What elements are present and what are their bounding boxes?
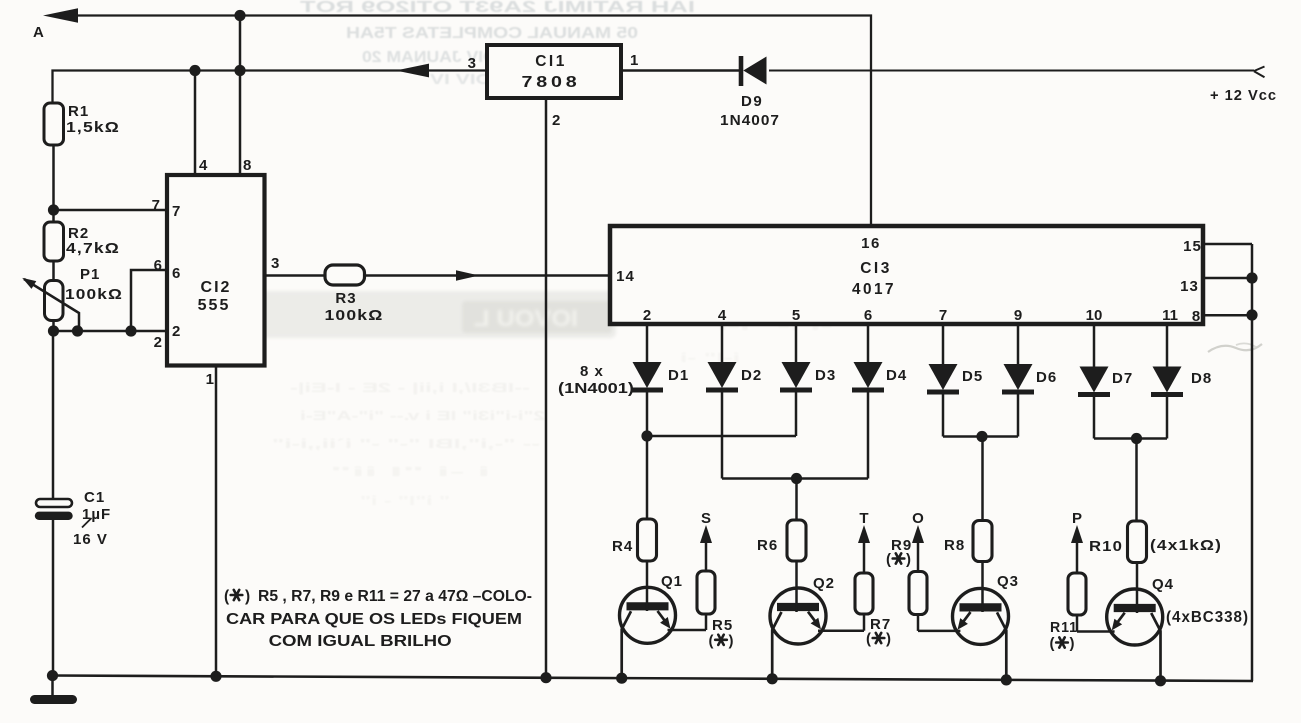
svg-text:): ) — [906, 551, 911, 568]
svg-text:R1: R1 — [68, 103, 89, 120]
svg-text:-- "-,i",IBI "-" -" i`ii,,: -- "-,i",IBI "-" -" i`ii,,i-i" — [272, 436, 540, 451]
svg-text:2: 2 — [154, 334, 162, 351]
svg-text:2: 2 — [172, 323, 180, 340]
svg-text:D4: D4 — [886, 367, 907, 384]
svg-text:Q4: Q4 — [1152, 576, 1174, 593]
svg-text:Q1: Q1 — [661, 573, 683, 590]
svg-text:4017: 4017 — [852, 281, 896, 298]
svg-text:(: ( — [866, 631, 871, 648]
svg-text:(: ( — [886, 551, 891, 568]
svg-text:(: ( — [224, 588, 230, 605]
svg-text:100kΩ: 100kΩ — [325, 307, 384, 324]
svg-text:): ) — [245, 588, 250, 605]
svg-text:9: 9 — [1014, 307, 1022, 324]
svg-text:7: 7 — [152, 197, 160, 214]
svg-text:7: 7 — [172, 203, 180, 220]
svg-text:6: 6 — [154, 257, 162, 274]
svg-text:05 MANUAL COMPLETAS T5AH: 05 MANUAL COMPLETAS T5AH — [346, 25, 638, 42]
svg-text:16 V: 16 V — [73, 531, 108, 548]
svg-text:): ) — [886, 631, 891, 648]
svg-text:(: ( — [1050, 635, 1055, 652]
svg-text:11: 11 — [1162, 307, 1178, 324]
svg-text:8: 8 — [1192, 308, 1200, 325]
svg-text:CI1: CI1 — [535, 53, 567, 70]
svg-text:(4x1kΩ): (4x1kΩ) — [1150, 537, 1222, 554]
svg-text:5: 5 — [792, 307, 800, 324]
svg-text:1,5kΩ: 1,5kΩ — [66, 119, 120, 136]
svg-text:R6: R6 — [757, 537, 778, 554]
svg-text:2: 2 — [552, 112, 560, 129]
svg-text:R5 , R7, R9 e R11 = 27 a 47Ω –: R5 , R7, R9 e R11 = 27 a 47Ω –COLO- — [258, 588, 532, 605]
svg-text:S: S — [701, 510, 711, 527]
svg-text:D1: D1 — [668, 367, 689, 384]
svg-text:D8: D8 — [1191, 370, 1212, 387]
svg-text:555: 555 — [198, 297, 231, 314]
svg-text:O: O — [912, 510, 924, 527]
svg-text:R11: R11 — [1050, 619, 1078, 636]
svg-text:CAR PARA QUE OS LEDs FIQU: CAR PARA QUE OS LEDs FIQUEM — [226, 611, 522, 628]
svg-text:D6: D6 — [1036, 369, 1057, 386]
svg-text:(4xBC338): (4xBC338) — [1166, 609, 1249, 626]
svg-text:4: 4 — [718, 307, 727, 324]
svg-text:C1: C1 — [84, 489, 105, 506]
svg-text:14: 14 — [616, 268, 635, 285]
svg-text:IAH RATIMIJ 2A93T OTI2O9 R: IAH RATIMIJ 2A93T OTI2O9 ROT — [300, 0, 695, 16]
svg-text:R8: R8 — [944, 537, 965, 554]
svg-text:15: 15 — [1183, 238, 1202, 255]
svg-text:D2: D2 — [741, 367, 762, 384]
svg-text:+ 12 Vcc: + 12 Vcc — [1210, 87, 1277, 104]
svg-text:" i"I" - i": " i"I" - i" — [360, 493, 450, 508]
svg-text:4,7kΩ: 4,7kΩ — [66, 240, 120, 257]
svg-text:8: 8 — [243, 157, 251, 174]
svg-text:3: 3 — [271, 255, 279, 272]
svg-text:6: 6 — [172, 265, 180, 282]
svg-text:16: 16 — [861, 235, 881, 252]
svg-text:i -i "I ii": i -i "I ii" — [330, 464, 490, 479]
svg-text:2"i-i"i3i" IE i v.-- "i"-A: 2"i-i"i3i" IE i v.-- "i"-A"E-i — [300, 408, 545, 423]
svg-text:A: A — [33, 24, 44, 41]
svg-text:P: P — [1072, 510, 1082, 527]
svg-text:7: 7 — [939, 307, 947, 324]
svg-text:8 x: 8 x — [580, 363, 604, 380]
svg-text:Q3: Q3 — [997, 573, 1019, 590]
svg-text:1N4007: 1N4007 — [720, 112, 780, 129]
svg-text:COM IGUAL BRILHO: COM IGUAL BRILHO — [269, 633, 452, 650]
svg-text:): ) — [729, 632, 734, 649]
svg-text:6: 6 — [864, 307, 872, 324]
svg-text:7808: 7808 — [522, 74, 581, 91]
svg-text:10: 10 — [1086, 307, 1103, 324]
svg-text:): ) — [1070, 635, 1075, 652]
svg-text:1µF: 1µF — [82, 506, 111, 523]
svg-text:P1: P1 — [80, 266, 100, 283]
svg-text:(: ( — [709, 632, 714, 649]
svg-text:D3: D3 — [815, 367, 836, 384]
svg-text:100kΩ: 100kΩ — [65, 286, 123, 303]
svg-text:CI2: CI2 — [201, 279, 232, 296]
svg-text:D5: D5 — [962, 368, 983, 385]
svg-text:2: 2 — [643, 307, 651, 324]
svg-text:--IB3I/,I i,ii| - 2E - I-: --IB3I/,I i,ii| - 2E - I-Ei|- — [290, 380, 530, 395]
svg-text:R3: R3 — [335, 290, 356, 307]
svg-text:1: 1 — [630, 52, 638, 69]
svg-text:R4: R4 — [612, 538, 633, 555]
svg-text:1: 1 — [206, 371, 214, 388]
svg-text:R10: R10 — [1089, 538, 1123, 555]
svg-text:4: 4 — [199, 157, 208, 174]
svg-text:IOVOU L: IOVOU L — [474, 305, 578, 331]
svg-text:(1N4001): (1N4001) — [558, 380, 634, 397]
svg-text:D9: D9 — [741, 93, 763, 110]
svg-text:T: T — [859, 510, 868, 527]
svg-text:Q2: Q2 — [813, 575, 835, 592]
svg-text:CI3: CI3 — [860, 260, 892, 277]
svg-text:3: 3 — [468, 55, 476, 72]
svg-text:D7: D7 — [1112, 370, 1133, 387]
svg-text:13: 13 — [1180, 278, 1199, 295]
